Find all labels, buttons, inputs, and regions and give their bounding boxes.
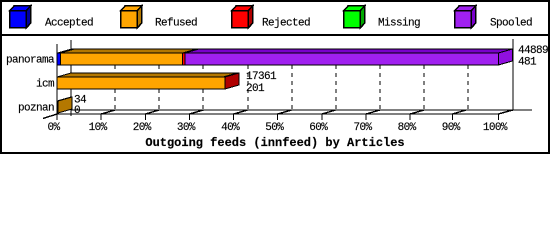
legend cube Missing: [344, 6, 365, 28]
svg-text:10%: 10%: [89, 122, 108, 134]
svg-text:0%: 0%: [47, 122, 60, 134]
tick 20%: [145, 110, 159, 120]
svg-text:panorama: panorama: [6, 55, 55, 67]
legend separator line: [2, 34, 548, 36]
tick 50%: [278, 110, 292, 120]
gridline 50%: [291, 49, 293, 110]
legend cube Spooled: [455, 6, 476, 28]
bar poznan top face: [57, 97, 72, 101]
svg-text:50%: 50%: [265, 122, 284, 134]
svg-text:90%: 90%: [442, 122, 461, 134]
gridline 20%: [158, 49, 160, 110]
bar panorama top face: [58, 49, 513, 53]
tick 0%: [56, 114, 58, 120]
gridline 80%: [423, 49, 425, 110]
outer border: [0, 0, 550, 154]
tick 30%: [189, 110, 203, 120]
bar panorama front: accepted: [57, 53, 61, 65]
svg-text:40%: 40%: [221, 122, 240, 134]
svg-text:17361: 17361: [246, 71, 277, 83]
tick 40%: [234, 110, 248, 120]
svg-text:Spooled: Spooled: [490, 18, 532, 30]
svg-text:100%: 100%: [483, 122, 508, 134]
bar icm top face: [57, 73, 239, 77]
tick 80%: [410, 110, 424, 120]
svg-text:poznan: poznan: [18, 103, 54, 115]
bar icm end cap: [225, 73, 239, 89]
gridline 10%: [114, 49, 116, 110]
tick 10%: [101, 110, 115, 120]
origin diagonal bottom-left: [43, 114, 57, 119]
right axis: [512, 39, 514, 110]
bar panorama front: rejected: [183, 53, 186, 65]
svg-text:icm: icm: [36, 79, 55, 91]
svg-text:70%: 70%: [353, 122, 372, 134]
svg-text:80%: 80%: [398, 122, 417, 134]
gridline 40%: [247, 49, 249, 110]
legend cube Rejected: [232, 6, 253, 28]
bar panorama end cap: [498, 49, 512, 65]
front bottom axis line: [57, 113, 499, 115]
svg-text:60%: 60%: [309, 122, 328, 134]
svg-text:Accepted: Accepted: [45, 18, 93, 30]
corner diagonal bottom-right: [498, 110, 513, 114]
svg-text:30%: 30%: [177, 122, 196, 134]
svg-text:201: 201: [246, 83, 265, 95]
bar panorama front: spooled: [185, 53, 498, 65]
svg-text:0: 0: [74, 105, 80, 117]
svg-text:Refused: Refused: [155, 18, 197, 30]
gridline 70%: [379, 49, 381, 110]
svg-text:481: 481: [518, 57, 537, 69]
bar panorama front: refused: [61, 53, 183, 65]
tick 100%: [498, 110, 512, 120]
svg-text:44889: 44889: [518, 45, 548, 57]
svg-text:Missing: Missing: [378, 18, 420, 30]
gridline 30%: [202, 49, 204, 110]
tick 90%: [452, 110, 466, 120]
svg-text:Outgoing feeds (innfeed) by Ar: Outgoing feeds (innfeed) by Articles: [145, 136, 404, 150]
gridline 90%: [467, 49, 469, 110]
legend cube Refused: [121, 6, 142, 28]
bar poznan front: refused: [57, 101, 58, 113]
front y-axis: [56, 44, 58, 120]
bar icm front: refused: [57, 77, 225, 89]
legend cube Accepted: [10, 6, 31, 28]
gridline 60%: [335, 49, 337, 110]
back y-axis: [70, 40, 72, 116]
tick 60%: [322, 110, 336, 120]
back bottom axis line: [71, 109, 532, 111]
bar poznan end cap: [58, 97, 72, 113]
svg-text:20%: 20%: [133, 122, 152, 134]
tick 70%: [366, 110, 380, 120]
svg-text:Rejected: Rejected: [262, 18, 310, 30]
